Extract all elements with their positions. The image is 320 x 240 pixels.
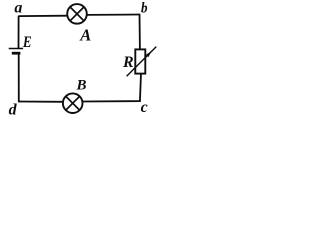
svg-text:E: E — [22, 34, 32, 51]
wire lamp A to b (top-right segment) — [87, 14, 140, 16]
lamp B cross line \ — [66, 96, 80, 110]
svg-text:R: R — [122, 54, 134, 71]
resistor R diagonal arrow line — [127, 47, 157, 77]
lamp A cross line / — [70, 7, 84, 21]
lamp A cross line \ — [70, 7, 84, 21]
svg-text:c: c — [141, 99, 148, 116]
svg-text:A: A — [79, 25, 91, 44]
lamp B circle — [63, 93, 83, 113]
wire d to lamp B (bottom-left segment) — [18, 101, 63, 103]
wire battery to d (left-bottom segment) — [18, 54, 20, 102]
resistor R box — [135, 49, 145, 73]
lamp A circle — [67, 4, 87, 24]
wire a to lamp A (top-left segment) — [19, 15, 68, 17]
battery E: long plate — [9, 48, 23, 50]
wire lamp B to c (bottom-right segment) — [83, 100, 141, 102]
svg-text:d: d — [9, 102, 18, 119]
lamp B cross line / — [66, 96, 80, 110]
svg-text:B: B — [76, 77, 87, 93]
battery E: short thick plate — [12, 52, 21, 55]
resistor R arrowhead — [146, 51, 152, 57]
wire b to resistor R (right-top segment) — [139, 14, 141, 50]
svg-text:a: a — [14, 0, 22, 16]
wire left side a to battery — [18, 16, 20, 49]
svg-text:b: b — [141, 0, 148, 16]
wire resistor R to c (right-bottom segment) — [140, 74, 141, 102]
